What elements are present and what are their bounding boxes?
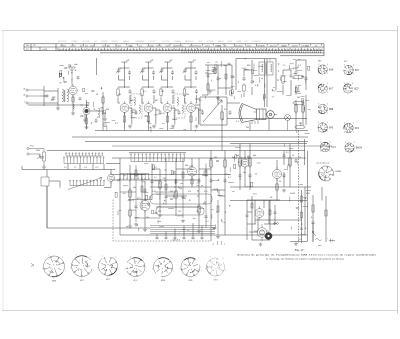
- svg-text:4: 4: [102, 255, 103, 257]
- ground G40: [259, 243, 263, 246]
- resistor R61: [141, 186, 143, 192]
- svg-text:970: 970: [195, 46, 198, 48]
- tube socket S3 (6K7): [99, 257, 118, 275]
- wire box output: [195, 97, 240, 125]
- tube socket S18 (EM34): [345, 143, 354, 152]
- svg-text:1k: 1k: [299, 157, 301, 159]
- capacitor C30: [151, 179, 154, 184]
- resistor R35: [198, 204, 200, 214]
- capacitor C35: [224, 178, 227, 183]
- bracket: [217, 241, 222, 245]
- svg-text:55266: 55266: [247, 45, 252, 47]
- ground G51: [181, 219, 185, 222]
- wire ps column x313: [312, 195, 314, 242]
- svg-text:5102: 5102: [139, 45, 143, 47]
- svg-text:3: 3: [318, 104, 319, 106]
- svg-text:EM34: EM34: [356, 146, 363, 149]
- ground G30: [42, 165, 46, 169]
- resistor R27: [292, 102, 304, 104]
- capacitor C41: [165, 236, 168, 239]
- wire bundle drops: [157, 223, 202, 236]
- svg-text:6Q7: 6Q7: [354, 87, 359, 90]
- wire stage3 top drop: [165, 62, 171, 88]
- switch bank SW2: [69, 180, 104, 185]
- svg-text:DROITWICH: DROITWICH: [58, 41, 67, 43]
- capacitor C24: [251, 79, 254, 84]
- capacitor C4b: [129, 89, 132, 94]
- svg-text:6K7: 6K7: [344, 61, 347, 63]
- svg-text:sect.: sect.: [318, 244, 322, 247]
- resistor R7a: [183, 87, 185, 97]
- svg-text:4: 4: [76, 254, 77, 256]
- svg-text:0,1: 0,1: [143, 91, 146, 93]
- ground G2b: [83, 119, 87, 122]
- mains plug: [316, 239, 322, 241]
- terminal A1: [26, 89, 44, 91]
- svg-text:50: 50: [96, 94, 98, 96]
- tube V10: [241, 157, 249, 170]
- resistor R64: [205, 170, 207, 176]
- svg-text:6B8: 6B8: [329, 108, 334, 111]
- capacitor C44: [192, 236, 195, 239]
- ground G52: [216, 235, 220, 238]
- tube socket S19 (octal): [319, 166, 334, 181]
- resistor R4b: [123, 116, 125, 122]
- wire vert x211: [210, 151, 212, 242]
- svg-text:25k: 25k: [186, 94, 189, 96]
- svg-text:5k: 5k: [222, 119, 224, 121]
- svg-text:le montage sur châssis est rep: le montage sur châssis est repéré en plu…: [266, 257, 344, 260]
- wire lower-left links: [22, 164, 120, 229]
- battery: [329, 239, 335, 243]
- capacitor C42: [174, 236, 177, 239]
- speaker under-ticks: [252, 120, 258, 124]
- band labels: [64, 167, 98, 169]
- wire sw3 top line: [129, 152, 186, 154]
- capacitor C25: [290, 73, 293, 78]
- svg-text:MONTE C: MONTE C: [112, 41, 120, 43]
- capacitor C61: [164, 196, 167, 197]
- svg-text:10k: 10k: [243, 172, 246, 174]
- ground G6: [171, 125, 175, 129]
- resistor R62: [165, 184, 167, 190]
- svg-text:SOTTENS: SOTTENS: [207, 41, 214, 43]
- wire af verticals: [130, 151, 245, 229]
- ground G32: [158, 214, 162, 217]
- svg-text:x 1000: x 1000: [42, 49, 47, 51]
- svg-text:k91907: k91907: [71, 45, 76, 47]
- svg-text:HILVERSUM: HILVERSUM: [252, 41, 261, 43]
- resistor R38: [191, 179, 193, 184]
- capacitor C55: [300, 228, 303, 229]
- svg-text:OC1: OC1: [84, 167, 87, 169]
- ground G34: [143, 228, 147, 231]
- output transformer T3: [259, 62, 273, 75]
- svg-text:25k: 25k: [179, 188, 182, 190]
- svg-text:4: 4: [353, 65, 354, 67]
- svg-text:2: 2: [345, 151, 346, 153]
- wire ant mesh: [28, 86, 88, 106]
- svg-text:04.0479: 04.0479: [115, 45, 121, 47]
- resistor R6a: [160, 87, 162, 97]
- svg-text:1: 1: [65, 270, 66, 272]
- ground G20: [216, 97, 220, 100]
- svg-text:50699k2: 50699k2: [292, 45, 298, 47]
- resistor R32: [129, 208, 131, 217]
- resistor R65: [217, 206, 219, 212]
- ground G5: [152, 125, 156, 129]
- svg-text:575k59m4: 575k59m4: [301, 45, 309, 47]
- antenna: [69, 67, 76, 86]
- station names: [58, 40, 261, 43]
- switch arm: [68, 178, 102, 190]
- svg-text:3: 3: [216, 212, 217, 214]
- capacitor C6a: [171, 70, 174, 75]
- tube socket S16 (6F6): [344, 123, 353, 132]
- ground G1: [56, 106, 60, 110]
- ground G4: [128, 125, 132, 129]
- resistor R1: [72, 97, 74, 102]
- svg-text:4942m0: 4942m0: [234, 45, 240, 47]
- wire bus y118.5: [227, 119, 307, 131]
- svg-text:Fig. 13: Fig. 13: [294, 248, 304, 252]
- wire stage1 k: [129, 108, 136, 125]
- connector dot: [265, 232, 272, 239]
- capacitor C6c: [178, 110, 181, 115]
- svg-text:6A8: 6A8: [318, 60, 321, 63]
- wire bus af1: [112, 174, 230, 176]
- capacitor C51: [283, 173, 286, 178]
- pilot lamp: [285, 115, 291, 131]
- small terminals: [274, 223, 279, 225]
- wire bus heater: [112, 157, 306, 159]
- svg-text:LUX: LUX: [94, 41, 97, 43]
- resistor R21b: [225, 74, 227, 79]
- svg-text:0,5: 0,5: [199, 100, 202, 102]
- svg-text:4: 4: [327, 83, 328, 85]
- tube V7: [108, 172, 115, 184]
- resistor R21: [221, 110, 223, 120]
- svg-text:0,1: 0,1: [236, 121, 239, 123]
- resistor R60: [135, 170, 137, 176]
- wire bus AVC: [95, 130, 308, 132]
- svg-text:6K7: 6K7: [329, 87, 334, 90]
- tube V2: [83, 105, 90, 117]
- capacitor C53: [239, 173, 242, 178]
- switch bank SW1b: [65, 153, 102, 156]
- svg-text:300: 300: [106, 109, 109, 111]
- component cluster K8 ps left (resistors, capacitors, wiring): [234, 148, 261, 187]
- svg-text:2k5: 2k5: [170, 191, 173, 193]
- svg-text:Schéma de principe de l'amplif: Schéma de principe de l'amplificateur QM…: [237, 254, 376, 257]
- wire stage4 trim link: [185, 68, 196, 80]
- wire bus y146: [112, 145, 332, 147]
- capacitor C5c: [159, 110, 162, 115]
- terminal T: [26, 102, 44, 104]
- resistor R33: [159, 179, 161, 189]
- resistor R37: [224, 158, 226, 168]
- resistor R46: [312, 205, 314, 212]
- capacitor C50: [283, 153, 286, 158]
- capacitor C58: [274, 212, 277, 213]
- component cluster K3 detector ladder (resistors, capacitors, wiring): [206, 61, 235, 99]
- capacitor C31: [144, 188, 147, 193]
- tube V8: [140, 198, 150, 213]
- svg-text:3: 3: [344, 123, 345, 125]
- trimmer capacitor CT1: [51, 96, 56, 101]
- svg-text:3: 3: [318, 122, 319, 124]
- resistor R25: [302, 103, 304, 113]
- tube V9: [188, 165, 197, 179]
- wire stage4 top drop: [188, 62, 194, 88]
- resistor R48: [251, 203, 253, 208]
- wire stage2 below: [148, 112, 150, 130]
- svg-text:0,1: 0,1: [97, 117, 100, 119]
- tube V14: [255, 206, 264, 220]
- wire vert x298: [298, 131, 300, 244]
- capacitor C43: [183, 236, 186, 239]
- svg-text:0,25: 0,25: [204, 191, 208, 193]
- wire stage2 grid links: [142, 87, 154, 103]
- switch bank SW1: [63, 157, 104, 164]
- svg-text:6K7: 6K7: [355, 69, 360, 72]
- svg-text:50k: 50k: [133, 187, 136, 189]
- ground G2: [71, 111, 75, 115]
- resistor R5b: [147, 116, 149, 122]
- resistor R7b: [190, 116, 192, 122]
- terminal A2: [26, 95, 40, 97]
- svg-text:25: 25: [292, 155, 294, 157]
- resistor R31: [129, 188, 131, 198]
- component cluster K2 mixer (resistors, capacitors, wiring): [80, 87, 115, 130]
- trimmer capacitor CT3: [140, 68, 145, 73]
- dial scale: [24, 44, 324, 56]
- svg-text:2: 2: [318, 92, 319, 94]
- tube V1: [69, 84, 77, 97]
- wire link 222: [221, 105, 223, 151]
- wire bus screen: [85, 141, 308, 143]
- svg-text:Ant: Ant: [75, 63, 78, 66]
- svg-text:EUROPE: EUROPE: [101, 41, 107, 43]
- capacitor C23: [243, 76, 246, 81]
- svg-text:4: 4: [185, 256, 186, 258]
- coil L1: [62, 89, 64, 102]
- trimmer capacitor CT5: [183, 68, 188, 73]
- svg-text:6K7: 6K7: [155, 100, 158, 102]
- wire bus chassis: [55, 150, 305, 152]
- svg-text:9825: 9825: [60, 45, 64, 47]
- svg-text:0,1: 0,1: [154, 177, 157, 179]
- tube socket S7 (5Y3): [206, 258, 224, 276]
- ground G7: [195, 125, 199, 129]
- wire bus HT upper: [72, 136, 308, 138]
- capacitor C21b: [231, 75, 234, 78]
- wire core L1L2: [63, 90, 66, 102]
- wire ps column x301: [301, 190, 303, 243]
- ground G42: [282, 189, 286, 192]
- coil L2b: [73, 104, 74, 109]
- svg-text:EM34: EM34: [336, 171, 342, 173]
- resistor R4a: [117, 87, 119, 97]
- svg-text:k049k: k049k: [165, 45, 169, 47]
- svg-text:6F6: 6F6: [185, 165, 188, 167]
- wiring loop A: [150, 194, 212, 204]
- svg-text:6A8: 6A8: [130, 99, 133, 102]
- capacitor C22: [229, 110, 232, 115]
- svg-text:1: 1: [327, 131, 328, 133]
- capacitor C45: [201, 236, 204, 239]
- resistor R20: [207, 82, 209, 91]
- switch bank SW4: [119, 174, 149, 180]
- svg-text:0,1: 0,1: [255, 85, 258, 87]
- resistor R40: [239, 156, 241, 167]
- svg-text:1M: 1M: [161, 91, 164, 93]
- wire stage1 trim link: [119, 68, 130, 80]
- svg-text:620: 620: [85, 46, 88, 48]
- bottom socket pin labels: [42, 254, 226, 279]
- tube socket S12 (6K7): [318, 84, 327, 93]
- svg-text:0,5: 0,5: [286, 152, 289, 154]
- tube V3: [120, 101, 129, 115]
- svg-text:830: 830: [151, 46, 154, 48]
- svg-text:P.U.: P.U.: [30, 146, 34, 148]
- svg-text:50k: 50k: [146, 217, 149, 219]
- resistor R47: [325, 210, 327, 216]
- ground G33: [197, 230, 201, 233]
- wire bus supply3: [230, 200, 307, 202]
- capacitor C5b: [153, 89, 156, 94]
- wire bus ps bottom: [255, 220, 307, 242]
- capacitor C3: [95, 118, 98, 123]
- wire stage2 trim link: [143, 68, 154, 80]
- resistor R3: [102, 95, 104, 104]
- svg-text:620: 620: [198, 45, 201, 47]
- svg-text:4: 4: [48, 255, 49, 257]
- wire stage2 k: [153, 108, 160, 125]
- tube socket S1 (6A8): [43, 256, 64, 277]
- component cluster K4 output network (resistors, capacitors, wiring): [237, 58, 299, 101]
- svg-text:46kmm34: 46kmm34: [270, 45, 277, 47]
- resistor R24: [295, 103, 297, 113]
- resistor R41: [249, 156, 251, 167]
- component cluster K1 antenna coupler (resistors, capacitors, wiring): [59, 65, 76, 83]
- capacitor C7c: [201, 110, 204, 115]
- dashed unit box: [113, 200, 211, 242]
- resistor R43: [289, 156, 291, 167]
- capacitor C33: [198, 178, 201, 183]
- wire bus af2: [112, 179, 200, 181]
- ground G50: [134, 223, 138, 226]
- ground G3: [85, 125, 89, 129]
- wire vert 208 218: [202, 65, 233, 105]
- capacitor C62: [204, 216, 207, 217]
- coil L2: [67, 89, 69, 102]
- svg-text:6F6: 6F6: [329, 126, 334, 129]
- wire misc links L: [120, 158, 218, 235]
- capacitor C26: [295, 70, 298, 75]
- capacitor C57: [246, 215, 249, 216]
- svg-text:250: 250: [158, 211, 161, 213]
- capacitor C1: [44, 95, 49, 98]
- component cluster K6 AF unit a (resistors, capacitors, wiring): [115, 164, 176, 232]
- terminal PU2: [27, 153, 40, 155]
- svg-text:50k: 50k: [118, 94, 121, 96]
- wiring loop B: [156, 207, 204, 215]
- wire stage3 k: [172, 108, 179, 125]
- ground G2c: [103, 118, 107, 121]
- wire col x103: [85, 92, 105, 131]
- capacitor C7b: [195, 89, 198, 94]
- capacitor C32: [175, 179, 178, 184]
- resistor R49: [269, 210, 271, 215]
- tube socket S5 (6B8): [154, 258, 173, 277]
- capacitor C21: [217, 76, 220, 81]
- wire V2 links: [80, 58, 103, 129]
- wire af h-links: [130, 169, 225, 199]
- svg-text:+2: +2: [212, 244, 214, 246]
- svg-text:1M: 1M: [163, 178, 166, 180]
- svg-text:1: 1: [224, 244, 225, 246]
- tube socket S17 (5Y3): [320, 142, 330, 152]
- svg-text:k6.k4: k6.k4: [147, 45, 151, 47]
- svg-text:OC2: OC2: [95, 167, 98, 169]
- tube socket S4 (6Q7): [127, 257, 145, 276]
- wire out links: [244, 60, 291, 97]
- wire stage3 grid links: [161, 87, 173, 103]
- component cluster K10 under-stage (resistors, capacitors, wiring): [131, 112, 196, 133]
- wire stage4 below: [190, 112, 192, 130]
- dial scale inner text: [60, 45, 318, 47]
- tube V11: [273, 167, 282, 181]
- speaker: [239, 104, 277, 123]
- svg-text:4: 4: [330, 142, 331, 144]
- svg-text:4: 4: [130, 256, 131, 258]
- coil L3: [98, 108, 100, 117]
- dial scale labels: [63, 46, 309, 48]
- svg-text:100: 100: [148, 123, 151, 125]
- wire bus bottom: [120, 234, 307, 236]
- wire vert x120: [119, 158, 121, 235]
- svg-text:sortie H.P.: sortie H.P.: [172, 238, 181, 241]
- capacitor C27: [305, 76, 308, 81]
- capacitor C7a: [195, 70, 198, 75]
- capacitor C2b: [79, 97, 82, 101]
- svg-text:15k: 15k: [196, 211, 199, 213]
- svg-text:6A8: 6A8: [329, 68, 334, 71]
- capacitor C4c: [135, 110, 138, 115]
- resistor R6b: [166, 116, 168, 122]
- svg-text:0,5: 0,5: [224, 109, 227, 111]
- component cluster K5 tone corner (resistors, capacitors, wiring): [292, 59, 311, 133]
- tube socket S15 (6F6): [318, 123, 327, 132]
- svg-text:1099.0: 1099.0: [205, 45, 210, 47]
- svg-text:90k: 90k: [315, 45, 318, 47]
- IF transformer T1: [131, 94, 142, 118]
- wire pu wires: [40, 151, 55, 159]
- svg-text:0,1: 0,1: [115, 123, 118, 125]
- wire stage4 k: [195, 108, 202, 125]
- IF transformer T2: [174, 94, 185, 118]
- resistor R22: [243, 83, 245, 92]
- tube socket S2 (6K7): [71, 256, 92, 277]
- cable bundle: [150, 226, 215, 234]
- capacitor C40: [156, 236, 159, 239]
- tube V4: [144, 101, 153, 115]
- svg-text:1110: 1110: [239, 46, 243, 48]
- socket pin labels: [318, 64, 355, 153]
- capacitor C6b: [172, 89, 175, 94]
- tube socket S13 (6Q7): [343, 84, 352, 93]
